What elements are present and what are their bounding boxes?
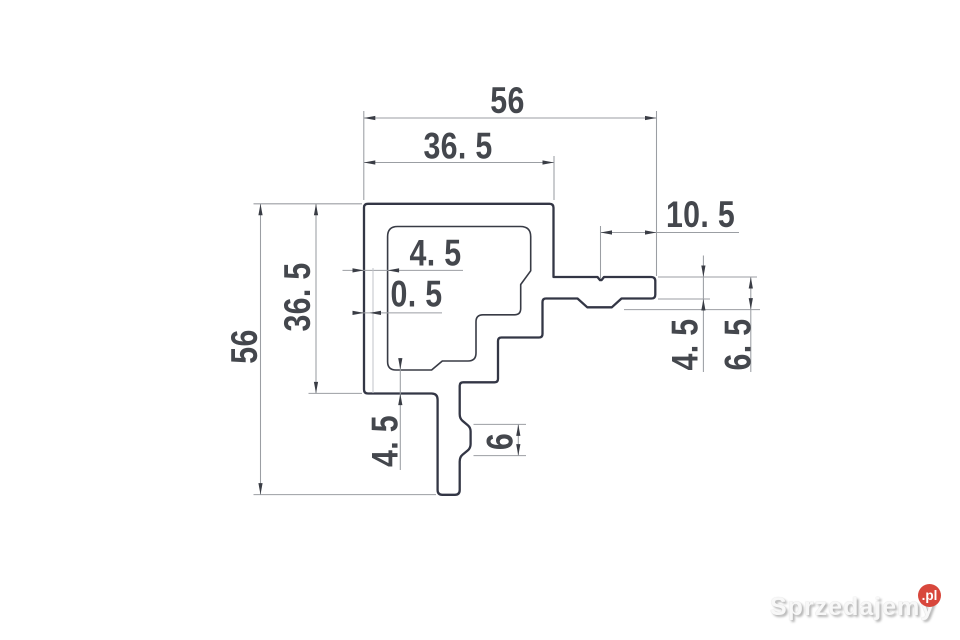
dim 6.5 right: extension line bump bottom [624,309,760,311]
watermark Sprzedajemy [770,593,935,622]
dim 56 top: right arrow [645,116,657,120]
svg-text:4. 5: 4. 5 [665,319,707,371]
dim 36.5 left: extension line bottom [309,392,363,394]
svg-text:10. 5: 10. 5 [666,194,735,236]
dim 0.5: dimension line [353,312,443,314]
dim 4.5 bottom: top arrow [398,358,402,370]
svg-text:56: 56 [224,329,266,363]
dim 36.5 left: bottom arrow [314,382,318,394]
dim 6: extension line bottom [474,455,527,457]
dim 36.5 top: dimension line [364,162,554,164]
dim 6: bottom arrow [516,444,520,456]
dim 56 top: extension line right [656,111,658,276]
dim 4.5 right: bottom arrow [701,299,705,311]
dim 4.5 right: dimension line [702,256,704,373]
dim 56 left: extension line top [254,203,363,205]
profile inner cavity contour [388,227,531,371]
svg-text:6: 6 [480,433,522,450]
dim 0.5: faint extension line [372,268,374,393]
svg-text:4. 5: 4. 5 [365,415,407,467]
dim 4.5 wall: dimension line [343,269,464,271]
svg-text:56: 56 [490,80,524,122]
dim 10.5: left arrow [601,230,613,234]
dim 6.5 right: bottom arrow [749,298,753,310]
dim 6: extension line top [474,423,527,425]
dim 4.5 wall: left arrow [353,268,365,272]
dim 10.5: right arrow [645,230,657,234]
dim 4.5 bottom: dimension line [399,358,401,470]
watermark .pl red badge [918,584,941,607]
dim 4.5 wall: right arrow [388,268,400,272]
dim 56 top: left arrow [364,116,376,120]
dim 36.5 top: extension line right [553,156,555,200]
dim 0.5: right arrow [370,311,382,315]
dim 4.5 right: extension line arm bottom [658,298,710,300]
dim 0.5: left arrow [353,311,365,315]
dim 10.5: extension line left [600,226,602,279]
dim 56 top: dimension line [364,117,657,119]
dim 4.5 bottom: bottom arrow [398,394,402,406]
svg-text:36. 5: 36. 5 [277,262,319,331]
dim 4.5 right: extension line arm top [658,276,757,278]
dim 56 left: bottom arrow [258,483,262,495]
dim 6: top arrow [516,424,520,436]
dim 6.5 right: dimension line [750,277,752,372]
dim 56 top: extension line left [363,111,365,200]
dim 36.5 left: top arrow [314,204,318,216]
svg-text:36. 5: 36. 5 [423,126,492,168]
svg-text:4. 5: 4. 5 [410,233,462,275]
dim 10.5: dimension line [601,232,740,234]
dim 56 left: top arrow [258,204,262,216]
dim 4.5 right: top arrow [701,266,705,278]
dim 56 left: extension line bottom [254,494,437,496]
profile outer contour [364,204,655,495]
dim 36.5 left: dimension line [315,204,317,394]
dim 56 left: dimension line [260,204,262,495]
dim 36.5 top: left arrow [364,160,376,164]
dim 6.5 right: top arrow [749,277,753,289]
dim 36.5 top: right arrow [543,160,555,164]
svg-text:0. 5: 0. 5 [391,274,443,316]
svg-text:6. 5: 6. 5 [718,319,760,371]
dim 6: dimension line [517,424,519,455]
